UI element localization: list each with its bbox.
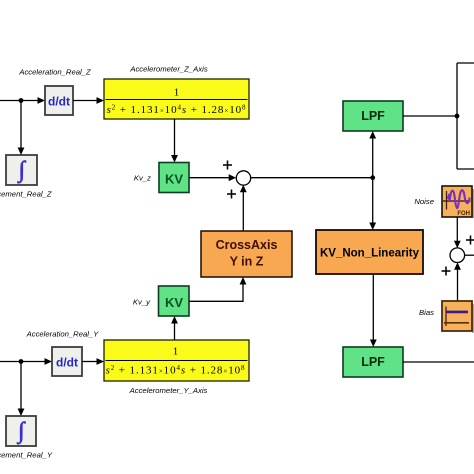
transfer function Accelerometer_Z_Axis <box>104 79 249 119</box>
wire input Z horizontal <box>0 97 45 104</box>
svg-text:KV: KV <box>165 295 183 310</box>
wire right vertical branch <box>456 63 458 169</box>
plus sign right sum top <box>466 236 474 245</box>
wire junction Z down to integrator <box>18 101 25 156</box>
node junction Z input <box>19 98 24 103</box>
svg-text:Kv_y: Kv_y <box>133 298 151 307</box>
svg-text:Bias: Bias <box>419 308 434 317</box>
svg-text:acement_Real_Z: acement_Real_Z <box>0 190 52 199</box>
svg-text:Acceleration_Real_Y: Acceleration_Real_Y <box>26 330 100 339</box>
derivative block d/dt (Z) <box>45 86 73 115</box>
wire LPF bottom output right <box>403 361 474 363</box>
svg-text:Kv_z: Kv_z <box>134 174 151 183</box>
wire KV Z to sum <box>189 174 236 181</box>
svg-text:Y in Z: Y in Z <box>230 255 264 269</box>
derivative block d/dt (Y) <box>52 347 82 376</box>
wire CrossAxis up into sum Z <box>240 185 247 231</box>
wire right top off-canvas <box>457 62 474 64</box>
svg-text:FOH: FOH <box>457 211 470 217</box>
wire junction down into KV_Non_Linearity <box>369 178 376 230</box>
gain block KV (Y) <box>159 286 190 316</box>
svg-text:Accelerometer_Y_Axis: Accelerometer_Y_Axis <box>129 386 208 395</box>
filter block LPF top <box>343 101 403 131</box>
noise source block FOH <box>442 186 474 218</box>
wire KV Y right and up to CrossAxis <box>189 277 246 301</box>
node Acceleration_Real_Y label <box>26 330 100 339</box>
orange block CrossAxis Y in Z <box>201 231 292 277</box>
plus sign sum Z bottom <box>227 190 236 199</box>
node Accelerometer_Y_Axis label <box>129 386 208 395</box>
sum junction right (circle) <box>450 248 465 263</box>
node Acceleration_Real_Z label <box>18 68 91 77</box>
wire d/dt Z to transfer fn <box>73 97 104 104</box>
wire junction up into LPF top <box>369 131 376 178</box>
svg-text:Acceleration_Real_Z: Acceleration_Real_Z <box>18 68 91 77</box>
wire d/dt Y to transfer fn <box>82 358 104 365</box>
integrator block (Z) <box>6 155 37 185</box>
svg-text:d/dt: d/dt <box>56 356 78 370</box>
wire Bias up into right sum <box>454 262 461 301</box>
node Noise label <box>414 197 434 206</box>
node junction right (dot) <box>455 114 460 119</box>
svg-text:CrossAxis: CrossAxis <box>216 238 278 252</box>
plus sign sum Z top <box>223 161 232 170</box>
wire KV_Non_Linearity down to LPF bottom <box>370 274 377 347</box>
wire LPF top output right <box>403 115 457 117</box>
node junction Y input <box>19 359 24 364</box>
node Bias label <box>419 308 434 317</box>
bias source block <box>442 301 474 333</box>
wire transfer fn Z down to KV gain <box>171 119 178 163</box>
svg-text:Accelerometer_Z_Axis: Accelerometer_Z_Axis <box>129 65 207 74</box>
node Kv_z label <box>134 174 151 183</box>
svg-text:acement_Real_Y: acement_Real_Y <box>0 451 53 460</box>
wire transfer fn Y up to KV gain <box>171 316 178 340</box>
node junction mid (dot) <box>370 175 375 180</box>
svg-text:d/dt: d/dt <box>48 95 70 109</box>
gain block KV (Z) <box>159 163 189 193</box>
svg-text:1: 1 <box>174 87 180 99</box>
orange block KV_Non_Linearity <box>316 230 423 274</box>
svg-text:LPF: LPF <box>361 355 385 369</box>
svg-text:KV: KV <box>165 172 183 187</box>
wire right bottom off-canvas <box>457 168 474 170</box>
wire junction Y down to integrator <box>18 362 25 417</box>
node Displacement_Real_Y label (cut) <box>0 451 53 460</box>
node Accelerometer_Z_Axis label <box>129 65 207 74</box>
svg-text:Noise: Noise <box>414 197 434 206</box>
svg-text:KV_Non_Linearity: KV_Non_Linearity <box>320 248 420 260</box>
filter block LPF bottom <box>343 347 403 377</box>
wire FOH down into right sum <box>454 217 461 248</box>
wire input Y horizontal <box>0 358 52 365</box>
svg-text:1: 1 <box>173 346 179 358</box>
node Displacement_Real_Z label (cut) <box>0 190 52 199</box>
wire right sum output <box>464 254 474 256</box>
wire sum Z output to junction <box>251 177 373 179</box>
node Kv_y label <box>133 298 151 307</box>
svg-text:LPF: LPF <box>361 109 385 123</box>
integrator block (Y) <box>6 416 36 446</box>
plus sign right sum bottom <box>442 267 451 276</box>
sum junction Z (circle) <box>236 171 250 185</box>
transfer function Accelerometer_Y_Axis <box>104 340 249 381</box>
